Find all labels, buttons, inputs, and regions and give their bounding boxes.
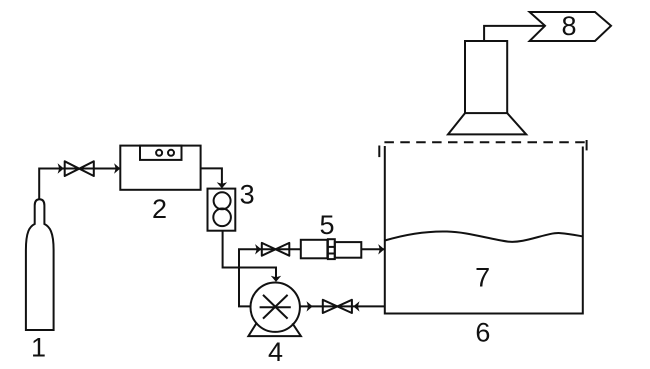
svg-text:3: 3: [240, 179, 255, 209]
svg-text:7: 7: [475, 263, 490, 293]
svg-text:5: 5: [319, 210, 334, 240]
svg-text:2: 2: [152, 194, 167, 224]
svg-text:6: 6: [475, 317, 490, 347]
svg-text:1: 1: [31, 333, 46, 363]
svg-text:8: 8: [561, 11, 576, 41]
svg-text:4: 4: [268, 337, 283, 367]
